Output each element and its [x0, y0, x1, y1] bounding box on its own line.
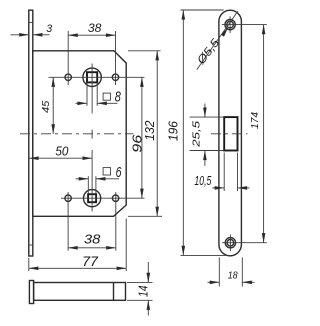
- faceplate strip (front view, edge-on): [29, 10, 33, 256]
- svg-text:6: 6: [116, 163, 123, 180]
- svg-text:196: 196: [166, 121, 180, 141]
- dimension 18: [208, 258, 255, 287]
- extension lines upper hole verticals: [68, 31, 115, 85]
- dimension 38 top: [68, 22, 115, 35]
- dimension 45: [41, 77, 53, 134]
- dimension square 8: [76, 82, 122, 105]
- bottom view inner edge line: [113, 283, 115, 301]
- dimension 50: [29, 144, 92, 159]
- top screw: [222, 16, 239, 33]
- upper hub circle: [83, 68, 101, 86]
- svg-text:132: 132: [143, 121, 157, 141]
- svg-text:38: 38: [88, 22, 102, 35]
- dimension square 6: [76, 163, 123, 194]
- dimension 10,5: [194, 153, 249, 192]
- svg-text:14: 14: [137, 285, 151, 297]
- dimension 38 bottom: [68, 232, 116, 248]
- lower holes row centerline: [61, 197, 145, 199]
- lower hub circle: [84, 190, 101, 207]
- dimension 96: [130, 77, 144, 198]
- upper holes row centerline: [49, 76, 145, 78]
- svg-text:77: 77: [82, 253, 99, 269]
- svg-text:18: 18: [228, 270, 238, 282]
- vertical centerline through hubs: [91, 64, 93, 212]
- upper left screw hole: [65, 74, 71, 80]
- dimension 3 (faceplate thickness): [11, 23, 53, 35]
- lower left screw hole: [65, 195, 71, 201]
- svg-text:10,5: 10,5: [194, 173, 212, 188]
- striker plate outline (side view, rounded ends): [219, 10, 242, 256]
- bottom view faceplate end: [29, 281, 33, 304]
- svg-text:174: 174: [249, 112, 261, 129]
- svg-text:25,5: 25,5: [192, 120, 203, 148]
- lower right screw hole: [112, 195, 118, 201]
- dimension 14: [127, 262, 153, 316]
- dimension 132: [128, 51, 162, 217]
- svg-text:38: 38: [84, 232, 101, 246]
- dimension 174: [239, 25, 267, 243]
- extension lines lower hole verticals: [68, 192, 116, 251]
- bottom screw: [222, 235, 239, 252]
- svg-text:3: 3: [46, 23, 52, 35]
- dimension 77: [29, 219, 126, 272]
- horizontal main centerline (dash-dot): [20, 133, 134, 135]
- dimension 196: [166, 10, 231, 255]
- upper square hole 8mm: [87, 72, 97, 82]
- svg-text:45: 45: [41, 100, 52, 113]
- leader diameter 5,5: [195, 11, 238, 69]
- lock case outline with chamfered right corners: [33, 51, 126, 217]
- lower square hole 6mm: [88, 194, 96, 202]
- bottom view case: [34, 283, 126, 301]
- upper right screw hole: [112, 74, 118, 80]
- dimension 25,5: [190, 104, 225, 166]
- latch cutout: [224, 117, 237, 150]
- svg-text:8: 8: [115, 88, 122, 105]
- cutout centerline: [211, 133, 248, 135]
- svg-text:50: 50: [55, 144, 69, 159]
